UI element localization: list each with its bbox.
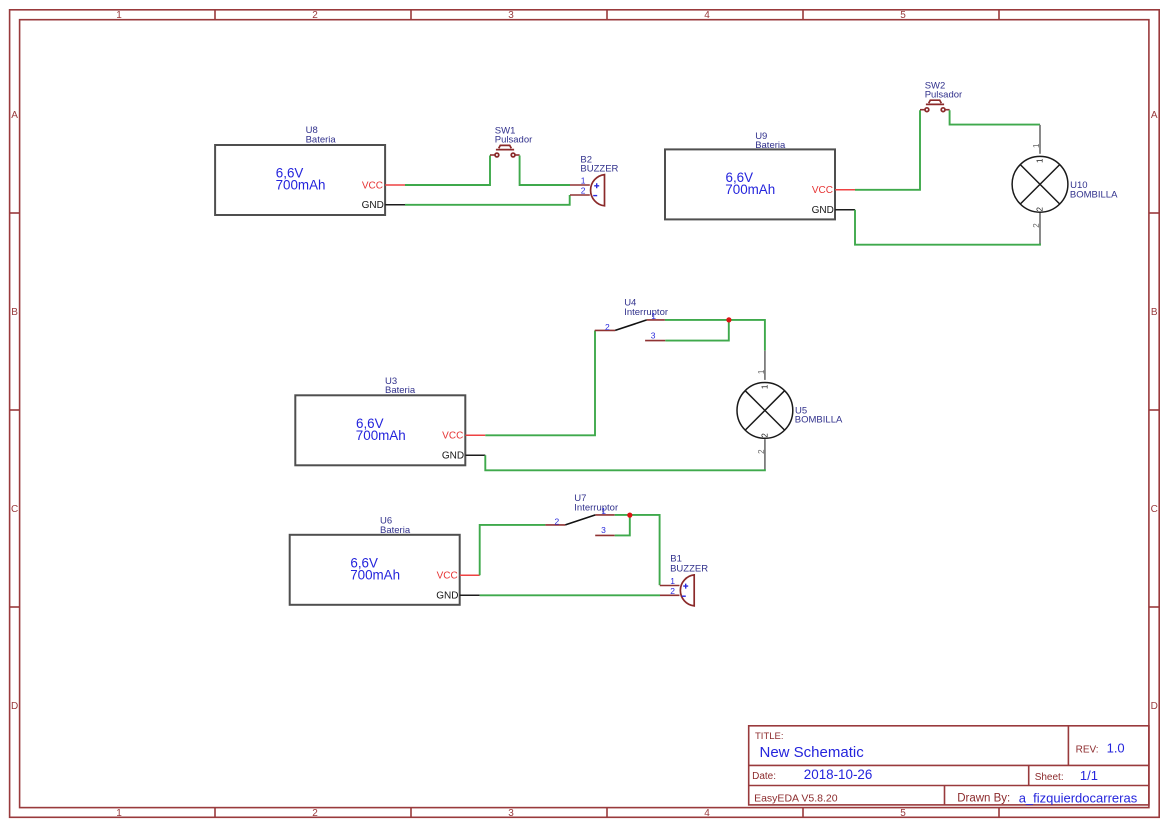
ruler tick left 2 xyxy=(10,409,20,411)
svg-text:2: 2 xyxy=(605,322,610,332)
battery U8 body xyxy=(215,145,385,215)
battery U6 pin GND xyxy=(460,594,480,596)
battery U3 body xyxy=(295,395,465,465)
title block row line 2 xyxy=(749,785,1149,787)
wire U9 VCC to SW2 pin1 xyxy=(855,110,920,190)
switch U7 pin 2 xyxy=(545,524,565,526)
switch U7 pin 1 xyxy=(595,514,614,516)
svg-text:Bateria: Bateria xyxy=(306,134,337,145)
svg-text:BOMBILLA: BOMBILLA xyxy=(795,415,843,426)
svg-text:REV:: REV: xyxy=(1076,744,1099,755)
svg-text:3: 3 xyxy=(651,330,656,340)
lamp U5 body xyxy=(737,383,793,439)
wire SW1 pin2 to B2 pin1 xyxy=(520,156,570,186)
title block outline xyxy=(749,726,1149,805)
ruler tick top 1 xyxy=(214,10,216,20)
svg-text:3: 3 xyxy=(601,525,606,535)
svg-text:Interruptor: Interruptor xyxy=(624,307,668,318)
wire U6 VCC to U7 pin2 xyxy=(480,525,546,575)
lamp U10 body xyxy=(1012,156,1068,212)
svg-text:1: 1 xyxy=(670,576,675,586)
junction node U7 out xyxy=(627,513,632,518)
switch U4 blade xyxy=(615,320,647,331)
svg-text:B: B xyxy=(1151,307,1158,318)
svg-text:VCC: VCC xyxy=(362,180,383,191)
svg-text:Drawn By:: Drawn By: xyxy=(957,793,1010,805)
ruler tick right 3 xyxy=(1149,606,1159,608)
svg-text:Interruptor: Interruptor xyxy=(574,503,618,514)
svg-text:1: 1 xyxy=(116,808,122,819)
svg-text:2: 2 xyxy=(1032,223,1041,228)
wire U3 VCC to U4 pin2 xyxy=(485,331,595,436)
battery U6 pin VCC xyxy=(460,574,480,576)
svg-text:1: 1 xyxy=(581,176,586,186)
pushbutton SW1 cap xyxy=(496,149,514,151)
wire U4 pin3 to junction xyxy=(665,320,729,341)
svg-text:VCC: VCC xyxy=(812,185,833,196)
svg-text:2: 2 xyxy=(555,517,560,527)
svg-text:Pulsador: Pulsador xyxy=(925,90,963,101)
buzzer B1 pin 1 xyxy=(660,585,680,587)
svg-text:2: 2 xyxy=(670,586,675,596)
wire SW2 pin2 to U10 pin1 xyxy=(950,110,1040,124)
svg-text:4: 4 xyxy=(704,808,710,819)
svg-text:1: 1 xyxy=(116,10,122,21)
wire U7 pin3 to junction xyxy=(615,515,630,535)
lamp U10 pin 1 xyxy=(1039,125,1041,154)
buzzer B2 minus mark xyxy=(593,195,597,197)
ruler tick bottom 3 xyxy=(606,808,608,818)
svg-text:C: C xyxy=(1151,504,1158,515)
pushbutton SW1 contact pin 1 xyxy=(490,154,495,156)
svg-text:5: 5 xyxy=(900,808,906,819)
battery U8 pin VCC xyxy=(385,184,405,186)
buzzer B1 pin 2 xyxy=(660,594,680,596)
ruler tick top 2 xyxy=(410,10,412,20)
title block row line 1 xyxy=(749,764,1149,766)
ruler tick bottom 5 xyxy=(998,808,1000,818)
svg-text:1: 1 xyxy=(601,506,606,516)
battery U9 pin GND xyxy=(835,209,855,211)
svg-text:1: 1 xyxy=(651,311,656,321)
buzzer B2 pin 2 xyxy=(570,194,590,196)
svg-text:700mAh: 700mAh xyxy=(350,567,400,582)
wire U4 pin1 to U5 pin1 xyxy=(665,320,765,351)
ruler tick right 2 xyxy=(1149,409,1159,411)
pushbutton SW2 contact pin 1 xyxy=(920,109,925,111)
svg-text:D: D xyxy=(1151,701,1158,712)
svg-text:a_fizquierdocarreras: a_fizquierdocarreras xyxy=(1019,790,1138,805)
svg-text:2: 2 xyxy=(312,808,318,819)
svg-text:2: 2 xyxy=(757,449,766,454)
svg-text:New Schematic: New Schematic xyxy=(760,744,865,761)
svg-text:BUZZER: BUZZER xyxy=(670,564,708,575)
svg-text:2: 2 xyxy=(1036,207,1045,212)
wire U6 GND to B1 pin2 xyxy=(480,594,660,596)
svg-text:1: 1 xyxy=(1036,158,1045,163)
switch U7 pin 3 xyxy=(595,534,615,536)
svg-text:VCC: VCC xyxy=(442,431,463,442)
svg-text:5: 5 xyxy=(900,10,906,21)
wire U9 GND to U10 pin2 xyxy=(855,210,1040,245)
ruler tick top 3 xyxy=(606,10,608,20)
buzzer B2 plus mark xyxy=(594,183,599,188)
title block divider REV xyxy=(1067,726,1069,766)
svg-text:VCC: VCC xyxy=(437,571,458,582)
pushbutton SW2 cap xyxy=(926,103,944,105)
svg-text:GND: GND xyxy=(442,450,464,461)
buzzer B1 minus mark xyxy=(682,595,686,597)
battery U6 body xyxy=(290,535,460,605)
title block divider Sheet xyxy=(1028,765,1030,785)
battery U3 pin GND xyxy=(465,454,485,456)
ruler tick bottom 4 xyxy=(802,808,804,818)
wire U8 GND to B2 pin2 xyxy=(405,195,570,205)
ruler tick top 4 xyxy=(802,10,804,20)
svg-text:BOMBILLA: BOMBILLA xyxy=(1070,189,1118,200)
buzzer B1 body xyxy=(680,575,694,606)
svg-text:D: D xyxy=(11,701,18,712)
switch U4 pin 1 xyxy=(647,319,665,321)
switch U7 blade xyxy=(565,515,595,525)
ruler tick top 5 xyxy=(998,10,1000,20)
svg-text:Bateria: Bateria xyxy=(755,140,786,151)
ruler tick left 1 xyxy=(10,212,20,214)
ruler tick bottom 1 xyxy=(214,808,216,818)
svg-text:700mAh: 700mAh xyxy=(725,182,775,197)
ruler tick bottom 2 xyxy=(410,808,412,818)
svg-text:1: 1 xyxy=(1032,143,1041,148)
svg-text:Date:: Date: xyxy=(752,771,776,782)
wire U3 GND to U5 pin2 xyxy=(485,455,765,470)
battery U8 pin GND xyxy=(385,204,405,206)
ruler tick left 3 xyxy=(10,606,20,608)
svg-text:GND: GND xyxy=(436,590,458,601)
pushbutton SW2 contact pin 2 xyxy=(941,108,945,112)
battery U3 pin VCC xyxy=(465,434,485,436)
svg-text:TITLE:: TITLE: xyxy=(755,731,784,742)
wire U8 VCC to SW1 pin1 xyxy=(405,156,490,186)
buzzer B2 body xyxy=(591,175,605,206)
svg-text:Bateria: Bateria xyxy=(385,385,416,396)
svg-text:700mAh: 700mAh xyxy=(356,428,406,443)
svg-text:1.0: 1.0 xyxy=(1107,741,1125,756)
svg-text:GND: GND xyxy=(362,200,384,211)
lamp U10 pin 2 xyxy=(1039,213,1041,244)
buzzer B2 pin 1 xyxy=(570,184,590,186)
svg-text:B: B xyxy=(11,307,18,318)
lamp U5 pin 2 xyxy=(764,439,766,469)
ruler tick right 1 xyxy=(1149,212,1159,214)
lamp U5 pin 1 xyxy=(764,351,766,380)
svg-text:A: A xyxy=(1151,110,1158,121)
svg-text:Pulsador: Pulsador xyxy=(495,135,533,146)
svg-text:3: 3 xyxy=(508,10,514,21)
title block divider Drawn By xyxy=(944,786,946,805)
svg-text:2: 2 xyxy=(312,10,318,21)
svg-text:4: 4 xyxy=(704,10,710,21)
svg-text:EasyEDA V5.8.20: EasyEDA V5.8.20 xyxy=(754,793,838,805)
switch U4 pin 2 xyxy=(595,329,615,331)
switch U4 pin 3 xyxy=(645,340,665,342)
svg-text:1: 1 xyxy=(761,384,770,389)
svg-text:2: 2 xyxy=(761,433,770,438)
svg-text:Bateria: Bateria xyxy=(380,525,411,536)
svg-text:2018-10-26: 2018-10-26 xyxy=(804,767,873,782)
svg-text:2: 2 xyxy=(581,185,586,195)
svg-text:BUZZER: BUZZER xyxy=(580,164,618,175)
svg-text:GND: GND xyxy=(812,205,834,216)
pushbutton SW1 contact pin 2 xyxy=(511,153,515,157)
svg-text:Sheet:: Sheet: xyxy=(1035,772,1064,783)
svg-text:3: 3 xyxy=(508,808,514,819)
svg-text:1/1: 1/1 xyxy=(1080,768,1098,783)
battery U9 body xyxy=(665,149,835,219)
buzzer B1 plus mark xyxy=(683,584,688,589)
svg-text:700mAh: 700mAh xyxy=(276,178,326,193)
svg-text:C: C xyxy=(11,504,18,515)
svg-text:1: 1 xyxy=(757,369,766,374)
junction node U4 out xyxy=(726,317,731,322)
wire U7 pin1 to B1 pin1 xyxy=(615,515,660,585)
svg-text:A: A xyxy=(11,110,18,121)
battery U9 pin VCC xyxy=(835,189,855,191)
